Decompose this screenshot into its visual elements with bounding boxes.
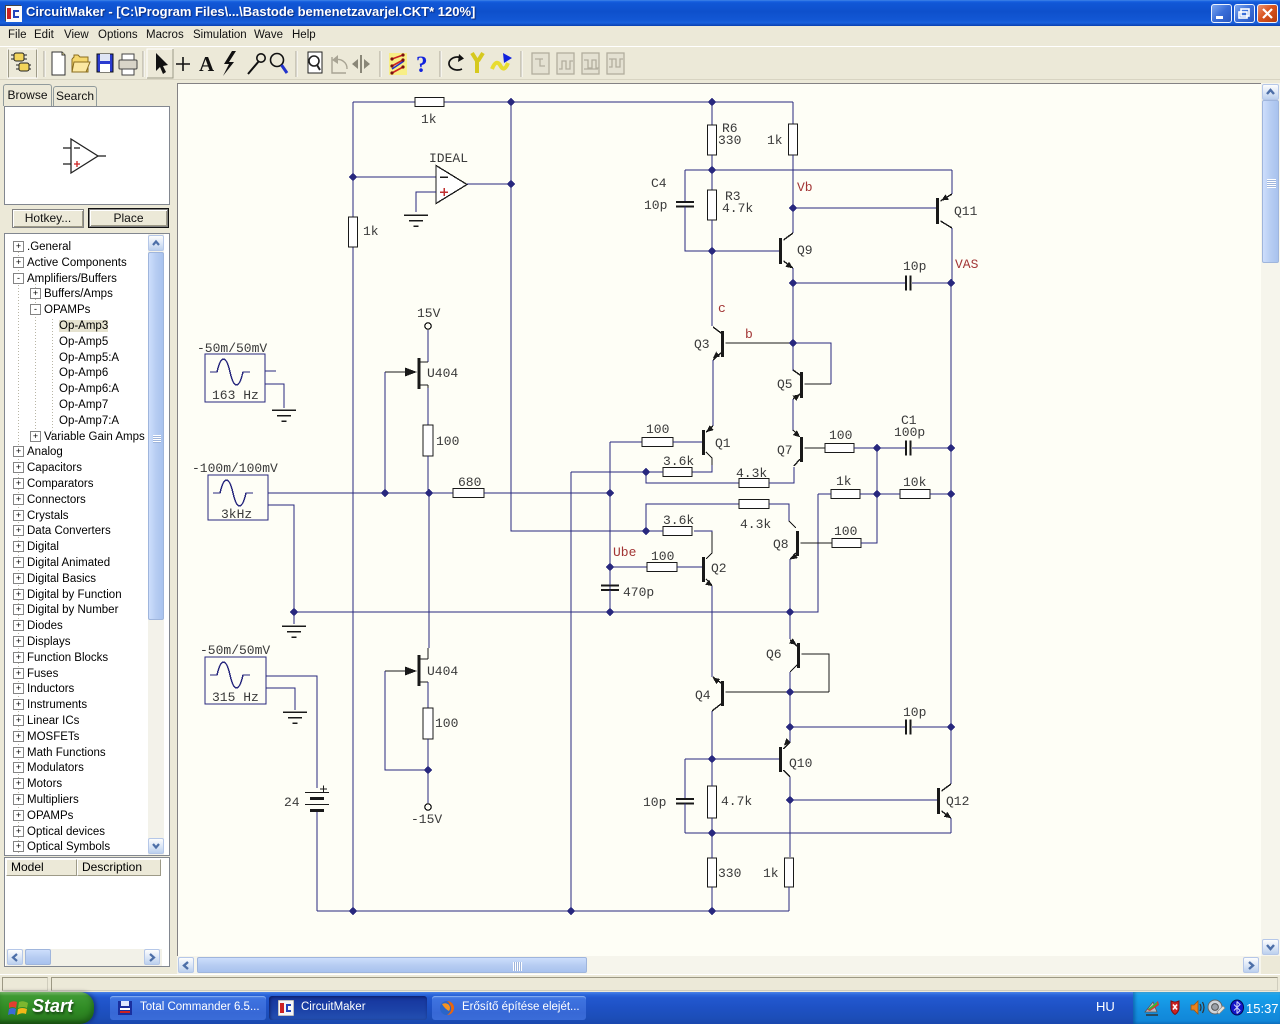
menu bar	[0, 26, 1280, 46]
resistor 1k (feedback, top)	[415, 98, 444, 107]
node left rail / bottom rail junction	[349, 907, 358, 916]
wire 100 up riser x=877	[861, 448, 877, 543]
svg-text:-100m/100mV: -100m/100mV	[192, 461, 278, 476]
wire C4 bottom to Q9 base	[685, 207, 779, 252]
svg-text:C4: C4	[651, 176, 667, 191]
svg-text:Q12: Q12	[946, 794, 969, 809]
wire node to 10p (bottom left)	[685, 759, 712, 798]
wire rail y=170	[685, 169, 952, 171]
svg-text:4.7k: 4.7k	[721, 794, 752, 809]
svg-text:100p: 100p	[894, 425, 925, 440]
new	[52, 52, 65, 75]
wire U404 upper gate to input node	[384, 372, 386, 493]
Q12 emitter lead	[942, 811, 952, 818]
value 4.7k (R3)	[722, 201, 753, 216]
svg-text:10p: 10p	[903, 705, 926, 720]
Q4 collector lead	[712, 704, 721, 711]
wire 3.6k to riser x=571	[571, 471, 663, 473]
wire to op-amp inverting input	[353, 176, 436, 178]
svg-text:Vb: Vb	[797, 180, 813, 195]
Q9 emitter arrow (NPN)	[785, 262, 794, 271]
designator Q6	[766, 647, 782, 662]
node VAS top junction	[947, 279, 956, 288]
wire Q1 collector to 3.6k	[692, 465, 712, 472]
bolt	[223, 51, 236, 76]
node 10k / VAS riser junction	[947, 490, 956, 499]
transistor Q5 base bar	[800, 372, 803, 398]
wire V3 minus to ground	[266, 688, 295, 710]
node 330 / bottom rail junction	[708, 907, 717, 916]
wire R3 to node	[711, 220, 713, 251]
wire to 10p (lower)	[790, 726, 906, 728]
node V2 minus / ground rail junction	[290, 608, 299, 617]
value -15V terminal	[411, 812, 442, 827]
wire top rail (op-amp output net)	[353, 101, 793, 103]
node C1 right junction	[947, 444, 956, 453]
Q3 emitter arrow (PNP)	[711, 352, 720, 361]
Q9 collector lead	[784, 233, 794, 240]
Q5 base lead	[805, 383, 832, 385]
value 4.7k (lower)	[721, 794, 752, 809]
value 100 (Q8 base resistor)	[834, 524, 857, 539]
wire Q9 emitter down	[792, 268, 794, 283]
wire op-amp non-inverting input to ground	[416, 192, 436, 212]
wire U404 lower gate loop	[385, 671, 428, 770]
wire top rail to R6	[711, 102, 713, 125]
source V1 -50m/50mV 163 Hz	[205, 354, 265, 402]
node Ube junction	[606, 563, 615, 572]
wire Vb to Q11 base	[793, 207, 936, 209]
label VAS (red node name)	[955, 257, 979, 272]
Q11 emitter lead	[941, 194, 953, 201]
svg-text:b: b	[745, 327, 753, 342]
value 1k (mid)	[836, 474, 852, 489]
node Q4 collector / 4.7k / 10p junction	[708, 755, 717, 764]
svg-text:10p: 10p	[643, 795, 666, 810]
value 100 (lower source resistor)	[435, 716, 458, 731]
value -100m/100mV (V2)	[192, 461, 278, 476]
wire V2 output to 680 resistor	[268, 492, 453, 494]
node R3 bottom / Q9 base junction	[708, 247, 717, 256]
wire b node to Q5 base loop	[793, 343, 831, 384]
node 1k/10k junction	[873, 490, 882, 499]
wire V3 plus to battery	[266, 676, 317, 788]
canvas	[177, 83, 1261, 956]
wire V1 minus to ground	[265, 384, 284, 408]
capacitor 10p (bottom left)	[676, 799, 694, 804]
resistor 100 (U404 upper source)	[423, 425, 433, 456]
wire ground rail y=612 up to 1k (mid)	[294, 494, 818, 612]
node input wire / U404 gate junction	[381, 489, 390, 498]
window title bar	[0, 0, 1280, 26]
value 4.3k (upper)	[736, 466, 767, 481]
wire 15V to U404 drain	[427, 330, 429, 362]
resistor 1k (bottom right)	[785, 858, 794, 887]
designator C1	[901, 413, 917, 428]
Q10 emitter arrow (PNP)	[782, 738, 791, 747]
node input wire / x=610 riser junction	[606, 489, 615, 498]
power terminal 15V	[425, 323, 431, 329]
designator Q5	[777, 377, 793, 392]
wire riser x=610 (Ube node)	[609, 442, 611, 612]
svg-text:4.3k: 4.3k	[736, 466, 767, 481]
transistor Q6 base bar	[797, 643, 800, 668]
op-amp U? IDEAL	[436, 166, 467, 204]
svg-text:1k: 1k	[421, 112, 437, 127]
svg-text:Q6: Q6	[766, 647, 782, 662]
wire Q10 collector down	[789, 777, 791, 800]
Q2 emitter lead	[706, 579, 712, 585]
svg-text:100: 100	[435, 716, 458, 731]
svg-text:U404: U404	[427, 366, 458, 381]
wire x=429 down to U404 lower drain	[428, 493, 430, 648]
value -50m/50mV (V1)	[197, 341, 267, 356]
transistor Q12 base bar	[937, 788, 940, 814]
svg-text:Q5: Q5	[777, 377, 793, 392]
node U404 lower gate/source junction	[424, 766, 433, 775]
designator C4	[651, 176, 667, 191]
value 315 Hz (V3)	[212, 690, 259, 705]
value 10p (upper)	[903, 259, 926, 274]
model/description	[4, 857, 170, 967]
transistor U404 (lower JFET)	[385, 648, 428, 686]
node VAS lower junction	[947, 723, 956, 732]
wire y=170 rail to Q11 emitter	[951, 170, 953, 194]
resistor 10k	[900, 490, 930, 499]
wire R6 to R3 through y=170	[711, 155, 713, 190]
status bar	[0, 974, 1280, 992]
resistor 680	[453, 489, 484, 498]
node Q9 emitter / 10p junction	[789, 279, 798, 288]
wire 4.3k lower to Q8 collector	[769, 504, 789, 521]
designator Q8	[773, 537, 789, 552]
wire Q2 emitter to Q4 emitter	[711, 586, 713, 677]
magnifier	[271, 54, 284, 67]
label c (red node name)	[718, 301, 726, 316]
value 100 (Q7 base resistor)	[829, 428, 852, 443]
Q10 collector lead	[784, 770, 791, 777]
wire U404 upper source to 100	[427, 388, 429, 425]
zoomdoc	[308, 52, 322, 73]
Q8 base lead	[801, 542, 833, 544]
horizontal scrollbar	[177, 956, 1261, 974]
node Q4 base / Q6 loop junction	[786, 688, 795, 697]
wire 100 to C1	[854, 447, 906, 449]
Q4 emitter arrow (NPN up)	[711, 675, 720, 684]
wire Q5 emitter to Q7 emitter	[792, 399, 794, 431]
designator U404 (lower)	[427, 664, 458, 679]
wire to 100 (Q1 base)	[610, 441, 642, 443]
wire to 10p (upper)	[793, 282, 906, 284]
Q1 collector lead	[706, 452, 712, 465]
wire 10p to VAS riser lower	[912, 726, 951, 728]
node Q10 emitter / 10p junction	[786, 723, 795, 732]
svg-text:330: 330	[718, 866, 741, 881]
wire 4.3k to Q7 collector	[769, 467, 794, 483]
designator R6	[722, 121, 738, 136]
resistor 330 (bottom)	[708, 858, 717, 887]
svg-text:10p: 10p	[903, 259, 926, 274]
svg-text:315 Hz: 315 Hz	[212, 690, 259, 705]
svg-text:680: 680	[458, 475, 481, 490]
label Vb (red node name)	[797, 180, 813, 195]
designator Q1	[715, 436, 731, 451]
wire 100 to junction	[427, 739, 429, 770]
value 100 (upper source resistor)	[436, 434, 459, 449]
designator Q10	[789, 756, 812, 771]
wire c node down to Q3 collector	[711, 251, 713, 326]
wire junction up to 4.3k (lower)	[646, 504, 739, 531]
resistor 100 (Q1 base)	[642, 438, 673, 447]
designator Q7	[777, 443, 793, 458]
svg-text:100: 100	[436, 434, 459, 449]
svg-text:Q7: Q7	[777, 443, 793, 458]
value 1k (bottom right)	[763, 866, 779, 881]
Q5 emitter arrow (PNP)	[793, 392, 802, 401]
Q9 emitter lead	[784, 261, 794, 268]
Q6 collector lead	[790, 665, 797, 672]
toolbar	[0, 46, 1280, 80]
value 470p	[623, 585, 654, 600]
designator Q2	[711, 561, 727, 576]
value 3.6k (lower)	[663, 513, 694, 528]
value 330	[718, 133, 741, 148]
svg-text:1k: 1k	[767, 133, 783, 148]
node top rail / R6 junction	[708, 98, 717, 107]
svg-text:VAS: VAS	[955, 257, 979, 272]
capacitor C4 10p	[676, 202, 694, 207]
Q7 emitter lead	[793, 430, 800, 437]
wire Q8 emitter through ground rail to Q6 emitter	[789, 559, 791, 639]
svg-text:100: 100	[829, 428, 852, 443]
wire 10p to VAS riser	[912, 282, 951, 284]
Q10 emitter lead	[784, 742, 791, 749]
svg-text:Q2: Q2	[711, 561, 727, 576]
value 1k (left resistor)	[363, 224, 379, 239]
designator Q3	[694, 337, 710, 352]
resistor R6 330	[708, 125, 717, 155]
transistor Q9 base bar	[779, 238, 782, 264]
svg-text:Q8: Q8	[773, 537, 789, 552]
svg-text:163 Hz: 163 Hz	[212, 388, 259, 403]
value 15V terminal	[417, 306, 441, 321]
wire C1 to VAS riser	[912, 447, 951, 449]
value 680	[458, 475, 481, 490]
wire 4.7k leads	[711, 759, 713, 833]
ground (op-amp + input)	[404, 215, 428, 226]
svg-text:470p: 470p	[623, 585, 654, 600]
svg-text:1k: 1k	[363, 224, 379, 239]
wire Ube to 100 (Q2 base)	[610, 566, 647, 568]
Q3 base wire to b node	[726, 342, 794, 344]
label Ube (red node name)	[613, 545, 636, 560]
wire battery minus to bottom rail	[316, 812, 318, 911]
value 10p (lower)	[903, 705, 926, 720]
svg-text:Q3: Q3	[694, 337, 710, 352]
value 4.3k (lower)	[740, 517, 771, 532]
undo (disabled)	[332, 57, 346, 73]
tree	[4, 233, 170, 856]
wire 10p to rail y=833	[684, 804, 686, 834]
svg-text:-50m/50mV: -50m/50mV	[197, 341, 267, 356]
preview box	[4, 106, 170, 205]
wire 1k leads	[818, 493, 877, 495]
battery V4 24	[305, 786, 329, 811]
wire bottom rail y=911	[317, 910, 789, 912]
svg-text:?: ?	[416, 52, 428, 77]
Q5 collector lead	[793, 370, 800, 375]
value 1k (top right)	[767, 133, 783, 148]
wire left rail x=353	[352, 102, 354, 911]
wire to C4 top	[684, 170, 686, 201]
wire 1k down to Q9 collector (Vb)	[792, 155, 794, 233]
Q1 emitter arrow (PNP)	[704, 425, 713, 434]
value 163 Hz (V1)	[212, 388, 259, 403]
transistor Q7 base bar	[800, 437, 803, 462]
svg-text:Ube: Ube	[613, 545, 636, 560]
wire mirror node to Q10 base	[712, 758, 779, 760]
Q6 emitter lead	[790, 640, 797, 646]
Q12 collector lead	[942, 784, 952, 791]
wire Q12 emitter to rail	[950, 818, 952, 833]
wire top rail corner to 1k	[792, 102, 794, 124]
wire Q9 emitter chain down to Q5	[792, 283, 794, 371]
ground (V2 / signal ground rail)	[282, 626, 306, 637]
wire 10k leads	[877, 493, 951, 495]
wire 680 to Ube node riser	[484, 492, 610, 494]
svg-text:U404: U404	[427, 664, 458, 679]
label b (red node name)	[745, 327, 753, 342]
resistor 100 (U404 lower source)	[423, 708, 433, 739]
transistor Q8 base bar	[796, 531, 799, 556]
Q7 collector lead	[794, 459, 800, 466]
svg-text:4.3k: 4.3k	[740, 517, 771, 532]
transistor U404 (upper JFET)	[385, 358, 428, 390]
node input wire / U404 source junction	[425, 489, 434, 498]
svg-text:Q4: Q4	[695, 688, 711, 703]
reset loop	[449, 57, 462, 70]
ground (V1)	[272, 410, 296, 421]
raised browse button	[8, 49, 37, 78]
wire 330 leads	[711, 833, 713, 911]
designator Q9	[797, 243, 813, 258]
node top rail / riser junction	[507, 98, 516, 107]
Q4 base wire	[726, 691, 830, 693]
wire rail y=833	[685, 832, 951, 834]
svg-text:-15V: -15V	[411, 812, 442, 827]
value 3kHz (V2)	[221, 507, 252, 522]
node C1 / 100 junction	[873, 444, 882, 453]
svg-text:24: 24	[284, 795, 300, 810]
node R6/R3/C4 rail junction	[708, 166, 717, 175]
node op-amp inverting input junction	[349, 173, 358, 182]
wire Q3 emitter to Q1 emitter	[712, 360, 714, 426]
svg-text:IDEAL: IDEAL	[429, 151, 468, 166]
node op-amp output junction	[507, 180, 516, 189]
wire Q11 collector to VAS	[951, 228, 953, 283]
transistor Q4 base bar	[721, 681, 724, 706]
wire Q10 emitter up	[789, 727, 791, 742]
Q3 emitter lead	[713, 353, 721, 360]
transistor Q2 base bar	[702, 557, 705, 582]
resistor 100 (Q7 base)	[825, 444, 854, 453]
transistor Q11 base bar	[936, 198, 939, 224]
svg-text:Q10: Q10	[789, 756, 812, 771]
node Q10 collector / Q12 base junction	[786, 796, 795, 805]
open	[72, 55, 88, 72]
svg-text:Q9: Q9	[797, 243, 813, 258]
wire 3.6k lower to junction	[646, 530, 663, 532]
transistor Q10 base bar	[779, 747, 782, 772]
Q3 collector lead	[713, 327, 721, 333]
designator Q11	[954, 204, 978, 219]
node x=571 riser / bottom rail junction	[567, 907, 576, 916]
resistor 1k (op-amp minus to bottom rail)	[349, 217, 358, 247]
node Vb junction	[789, 204, 798, 213]
wire op-amp output feedback riser x=511 and branch to 3.6k (lower)	[511, 102, 646, 531]
plus	[176, 57, 190, 71]
Q2 emitter arrow (NPN)	[705, 580, 714, 589]
Q4 emitter lead	[713, 677, 721, 683]
wire U404 lower source	[427, 682, 429, 708]
Q12 emitter arrow (NPN)	[944, 812, 953, 821]
wire V1 plus stub	[265, 370, 276, 372]
svg-text:15V: 15V	[417, 306, 441, 321]
resistor 100 (Q2 base)	[647, 563, 677, 572]
node b junction	[789, 339, 798, 348]
value 100p	[894, 425, 925, 440]
wire 470p leads	[609, 567, 611, 612]
value 3.6k (upper)	[663, 454, 694, 469]
raised arrow button	[147, 49, 173, 78]
Q5 emitter lead	[793, 394, 800, 399]
svg-text:10k: 10k	[903, 475, 927, 490]
value -50m/50mV (V3)	[200, 643, 270, 658]
node 3.6k upper left junction	[642, 468, 651, 477]
wire Q12 base	[790, 799, 937, 801]
Q7 base lead	[805, 447, 826, 449]
node 3.6k lower left junction	[642, 527, 651, 536]
node ground rail / 470p junction	[606, 608, 615, 617]
Q6 emitter arrow (PNP down)	[789, 638, 798, 647]
source V2 -100m/100mV 3kHz	[208, 475, 268, 520]
power terminal -15V	[425, 804, 431, 810]
svg-text:1k: 1k	[763, 866, 779, 881]
wire 1k to bottom rail	[788, 887, 790, 911]
Q8 emitter arrow (NPN)	[789, 553, 798, 562]
svg-text:330: 330	[718, 133, 741, 148]
probe	[248, 61, 259, 74]
sim checks	[389, 53, 407, 75]
svg-text:3.6k: 3.6k	[663, 513, 694, 528]
resistor R3 4.7k	[708, 190, 717, 220]
save	[97, 54, 113, 72]
wire junction to -15V terminal	[427, 770, 429, 803]
value 10p (bottom left)	[643, 795, 666, 810]
node ground rail / Q8-Q6 emitters junction	[786, 608, 795, 617]
capacitor 10p (upper)	[906, 276, 911, 291]
value 24 (battery)	[284, 795, 300, 810]
wire 100 to Q2 base	[677, 566, 702, 568]
wrench Y	[472, 53, 483, 73]
wave arrow	[492, 63, 508, 69]
designator U404 (upper)	[427, 366, 458, 381]
resistor 1k (mid)	[831, 490, 860, 499]
svg-text:10p: 10p	[644, 198, 667, 213]
wire down to 1k (bottom right)	[789, 800, 791, 857]
wire V2 minus to ground rail	[268, 505, 294, 624]
resistor 4.3k (upper)	[739, 479, 769, 488]
